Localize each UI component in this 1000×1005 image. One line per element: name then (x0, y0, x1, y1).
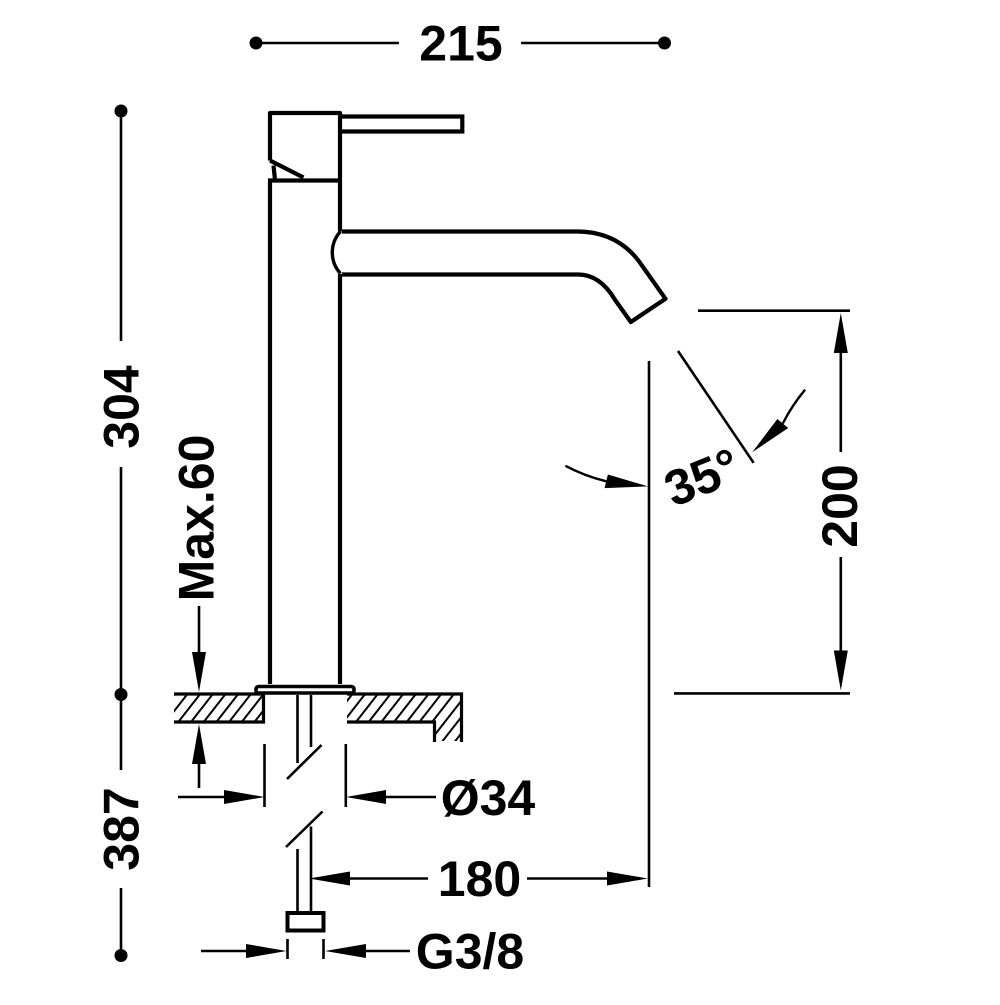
svg-text:Max.60: Max.60 (169, 435, 225, 602)
200 bottom arrow (834, 651, 848, 691)
svg-text:180: 180 (438, 851, 521, 907)
200 bottom leader line (674, 692, 850, 695)
svg-text:200: 200 (812, 464, 868, 547)
spout root arc (332, 232, 340, 274)
base flange (256, 687, 354, 694)
body column right edge upper (338, 181, 342, 232)
180 right arrow (527, 877, 607, 880)
svg-text:215: 215 (419, 16, 502, 72)
dimension 180 left arrow (309, 872, 350, 886)
cartridge junction line (268, 178, 342, 182)
dimension 304 line (120, 117, 123, 688)
200 top leader line (698, 309, 850, 312)
35deg right arc arrow (783, 390, 805, 424)
Ø34 right arrow (386, 796, 436, 799)
pipe break slash 1 (287, 745, 322, 779)
svg-text:Ø34: Ø34 (441, 770, 536, 826)
supply pipe upper (298, 695, 312, 763)
Max.60 upper arrow (198, 606, 201, 652)
Max.60 lower arrow (198, 764, 201, 788)
dimension 387 dot (115, 949, 128, 962)
body column left edge (268, 181, 272, 685)
svg-text:G3/8: G3/8 (416, 924, 524, 980)
deck left section hatch (174, 696, 264, 721)
dimension G3/8 left arrow (201, 950, 246, 953)
lever handle bar (340, 117, 462, 132)
connection nut (288, 913, 324, 931)
flow direction line 35deg (678, 351, 754, 463)
dimension 304 dots (115, 105, 128, 118)
deck right section hatch (347, 696, 461, 742)
dimension 387 line (120, 701, 123, 949)
dimension 215 lines (262, 42, 658, 45)
deck left section outline (174, 694, 264, 722)
svg-text:304: 304 (94, 365, 150, 449)
35deg left arc arrow (565, 466, 606, 482)
pipe break slash 2 (286, 812, 323, 848)
200 top arrow (834, 313, 848, 353)
supply pipe lower (298, 827, 312, 914)
deck right section outline (347, 694, 462, 742)
G3/8 extension lines (288, 939, 324, 959)
body column right edge lower (338, 274, 342, 684)
spout (342, 232, 666, 323)
svg-text:387: 387 (94, 787, 150, 870)
lever base block (270, 113, 340, 180)
dimension 215 dots (250, 37, 263, 50)
Ø34 left arrow (178, 796, 224, 799)
vertical reference line from spout (648, 361, 651, 887)
G3/8 right arrow (366, 950, 410, 953)
dimension 200 line (839, 353, 842, 651)
dimension Ø34 extension lines (265, 744, 346, 807)
